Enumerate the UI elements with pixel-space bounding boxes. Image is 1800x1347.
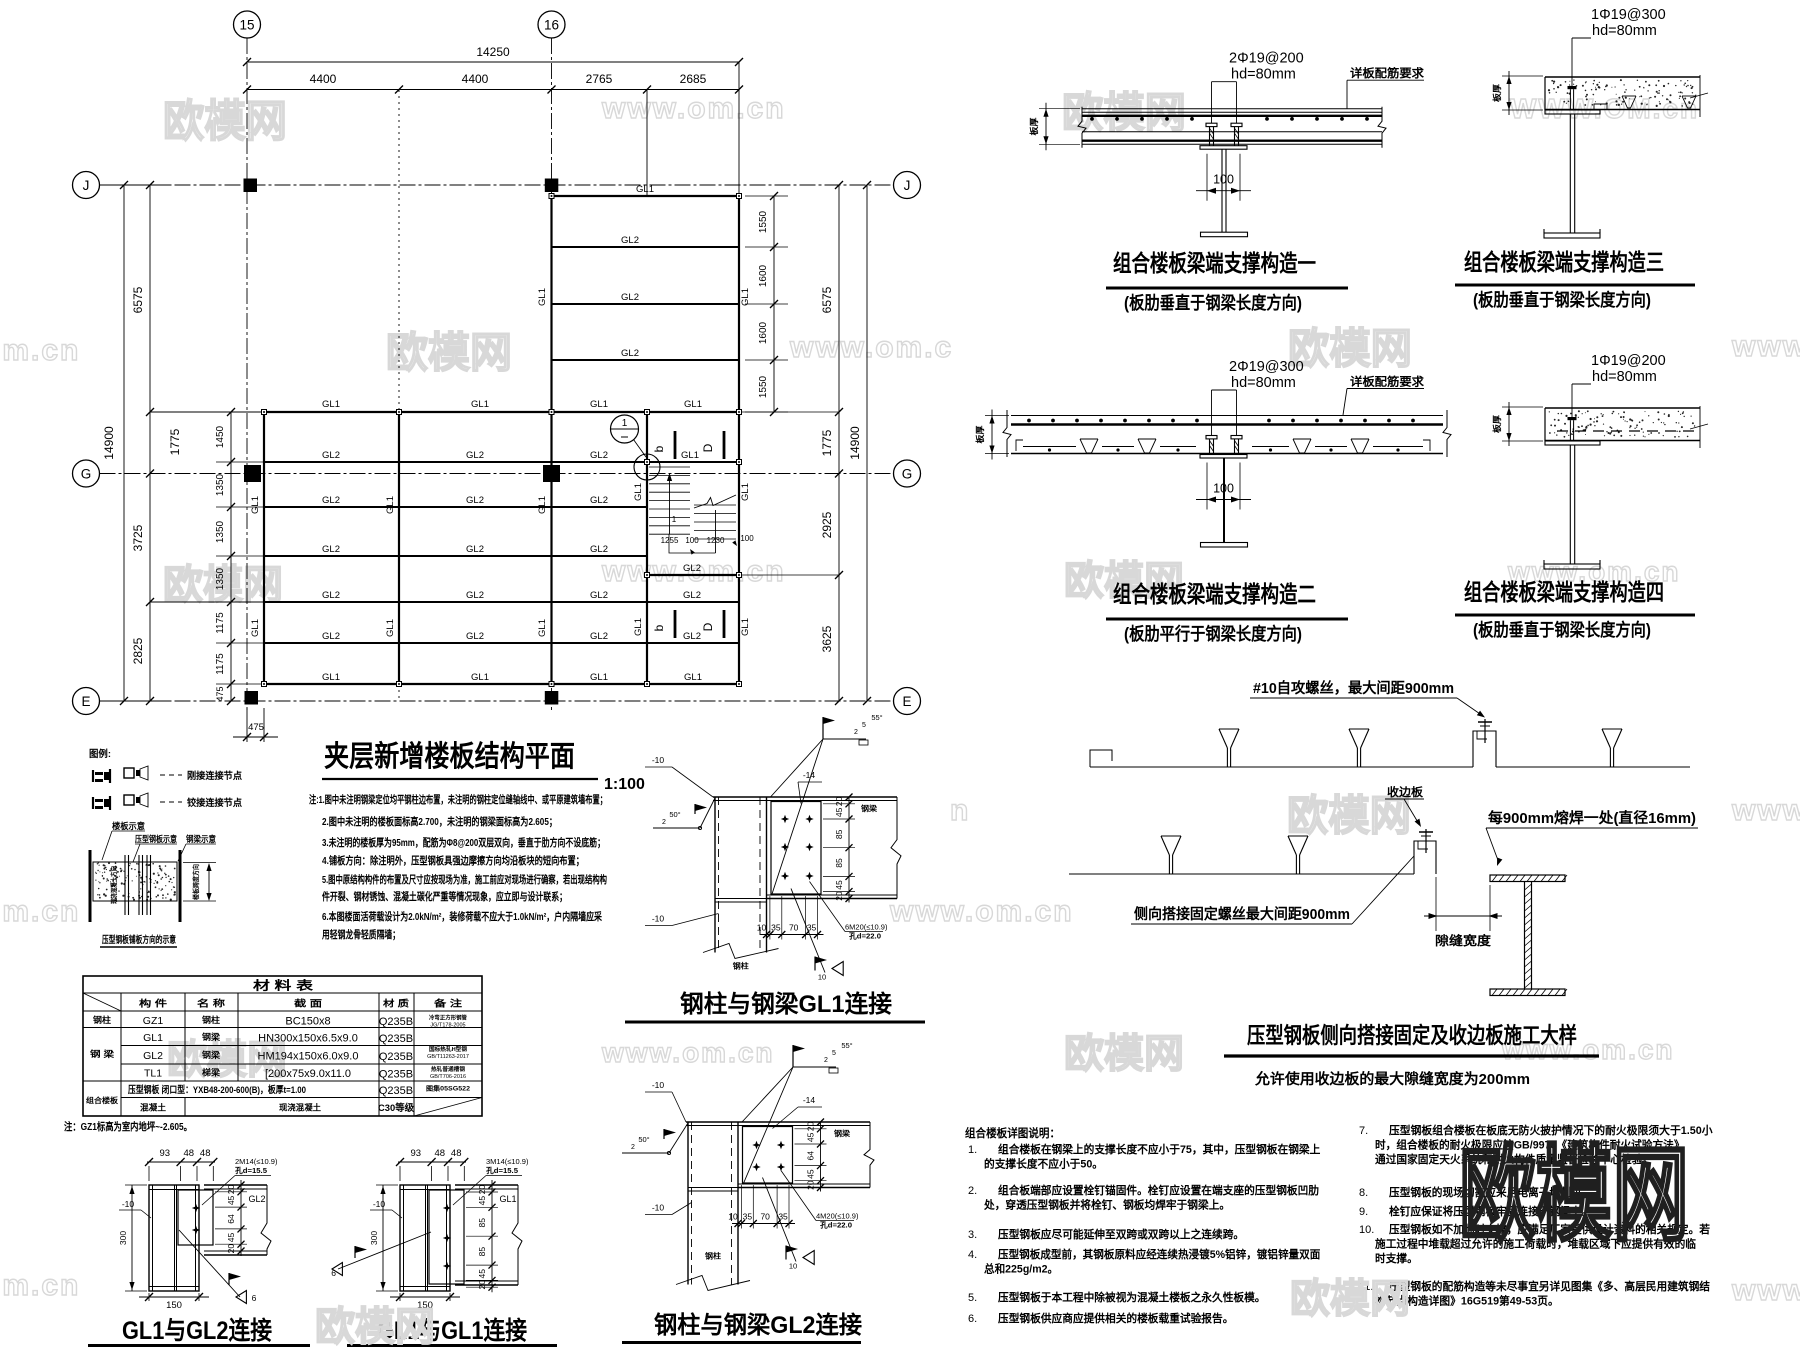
svg-text:GL2: GL2 — [590, 590, 608, 601]
svg-text:备 注: 备 注 — [433, 998, 462, 1009]
svg-text:详板配筋要求: 详板配筋要求 — [1350, 66, 1425, 80]
svg-text:300: 300 — [369, 1231, 379, 1245]
weld note 50deg (left) — [653, 798, 715, 830]
floor plan: grid line G (horizontal) — [73, 460, 921, 487]
svg-text:板厚: 板厚 — [975, 425, 985, 444]
svg-text:om.cn: om.cn — [0, 1269, 80, 1302]
svg-text:-10: -10 — [652, 914, 665, 924]
connected beam flanges — [455, 1185, 518, 1285]
svg-text:(板肋垂直于钢梁长度方向): (板肋垂直于钢梁长度方向) — [1473, 290, 1651, 310]
svg-text:475: 475 — [248, 722, 264, 733]
svg-text:150: 150 — [166, 1300, 182, 1311]
svg-text:(板肋平行于钢梁长度方向): (板肋平行于钢梁长度方向) — [1124, 624, 1302, 644]
plate label -14 — [798, 770, 822, 804]
svg-text:www.: www. — [1731, 330, 1800, 363]
column GZ1 at 16/G — [543, 465, 560, 482]
svg-text:钢柱: 钢柱 — [202, 1015, 221, 1025]
svg-text:注:1.图中未注明钢梁定位均平钢柱边布置，未注明的钢柱定位缝: 注:1.图中未注明钢梁定位均平钢柱边布置，未注明的钢柱定位缝轴线中、或平原建筑墙… — [309, 793, 607, 806]
svg-text:G: G — [81, 467, 92, 482]
svg-text:3725: 3725 — [131, 524, 145, 551]
weld flag callout (top) — [742, 1041, 853, 1185]
svg-text:WWW.OM.cn: WWW.OM.cn — [1510, 93, 1699, 124]
svg-text:处，穿透压型钢板并将栓钉、钢板均焊牢于钢梁上。: 处，穿透压型钢板并将栓钉、钢板均焊牢于钢梁上。 — [983, 1198, 1230, 1212]
svg-text:GL1: GL1 — [250, 496, 261, 514]
svg-text:组合楼板梁端支撑构造一: 组合楼板梁端支撑构造一 — [1113, 250, 1316, 276]
svg-text:[200x75x9.0x11.0: [200x75x9.0x11.0 — [265, 1068, 351, 1080]
svg-text:详板配筋要求: 详板配筋要求 — [1350, 375, 1425, 389]
svg-text:20: 20 — [806, 1121, 816, 1131]
svg-text:4M20(≤10.9): 4M20(≤10.9) — [816, 1212, 859, 1221]
svg-text:钢梁示意: 钢梁示意 — [186, 834, 216, 844]
slab thickness dimension 板厚 — [1492, 402, 1543, 446]
weld flag callout (bottom) — [791, 889, 843, 982]
detail title 钢柱与钢梁GL2连接 — [622, 1311, 862, 1343]
svg-text:TL1: TL1 — [144, 1068, 162, 1080]
deck figure: right beam — [179, 850, 182, 922]
svg-text:om.cn: om.cn — [0, 334, 80, 367]
edge trim label 收边板 — [1385, 785, 1424, 827]
svg-text:20: 20 — [226, 1244, 236, 1254]
rebar dots — [1090, 117, 1369, 121]
svg-text:梯梁: 梯梁 — [202, 1068, 221, 1078]
deck sheet profile (lower) with edge trim channel — [1069, 836, 1436, 874]
connection plate — [771, 802, 821, 895]
rebar dots — [1027, 419, 1415, 423]
beam bottom flange — [767, 895, 898, 899]
beam depth dimension 300 — [118, 1185, 147, 1291]
svg-text:10.: 10. — [1359, 1224, 1374, 1236]
svg-text:1550: 1550 — [758, 375, 769, 398]
svg-text:45: 45 — [806, 1169, 816, 1179]
stair landing outline — [669, 534, 716, 553]
vertical beam GL1 x=739 — [738, 412, 740, 684]
beam top flange plate — [686, 1122, 870, 1126]
svg-text:100: 100 — [740, 534, 754, 543]
svg-text:www.om.cn: www.om.cn — [601, 92, 786, 125]
svg-text:GL1: GL1 — [681, 450, 699, 461]
svg-text:1350: 1350 — [215, 473, 226, 496]
svg-text:-14: -14 — [803, 1095, 816, 1105]
svg-text:85: 85 — [477, 1218, 487, 1228]
stair break line — [694, 495, 736, 508]
dimension column 6575/1775/3725/2825 (left) — [131, 181, 264, 705]
stud callout — [1572, 7, 1666, 86]
svg-text:GL1: GL1 — [740, 288, 751, 306]
svg-text:48: 48 — [200, 1148, 211, 1159]
stud leader lines from callout — [1212, 82, 1237, 124]
svg-text:国标热轧H型钢: 国标热轧H型钢 — [429, 1045, 468, 1053]
svg-text:n: n — [950, 794, 970, 827]
svg-text:4.: 4. — [968, 1249, 977, 1261]
svg-text:侧向搭接固定螺丝最大间距900mm: 侧向搭接固定螺丝最大间距900mm — [1134, 905, 1350, 923]
svg-text:6: 6 — [252, 1293, 257, 1303]
svg-text:组合楼板梁端支撑构造二: 组合楼板梁端支撑构造二 — [1113, 581, 1316, 607]
svg-text:欧模网: 欧模网 — [386, 329, 512, 376]
svg-text:www.om.cn: www.om.cn — [889, 895, 1074, 928]
note item 5. — [968, 1290, 1266, 1304]
svg-text:孔d=15.5: 孔d=15.5 — [486, 1165, 518, 1175]
svg-text:1600: 1600 — [758, 264, 769, 287]
deck figure: left beam — [89, 850, 92, 922]
svg-text:压型钢板铺板方向的示意: 压型钢板铺板方向的示意 — [102, 934, 176, 946]
stair up arrow — [667, 473, 677, 534]
svg-text:70: 70 — [789, 923, 799, 933]
svg-text:9.: 9. — [1359, 1206, 1368, 1218]
slab thickness dimension 板厚 — [1492, 71, 1543, 115]
svg-text:20: 20 — [477, 1280, 487, 1290]
svg-text:压型钢板示意: 压型钢板示意 — [135, 834, 177, 844]
column intermediate stiffener lines — [715, 899, 767, 903]
stud callout — [1572, 353, 1666, 417]
note item 2. — [968, 1183, 1319, 1212]
note item 10. — [1359, 1222, 1710, 1265]
shear studs on beam — [1206, 123, 1242, 146]
material table frame — [83, 976, 482, 1116]
svg-text:2: 2 — [854, 729, 858, 736]
svg-text:J: J — [904, 178, 911, 193]
svg-text:45: 45 — [477, 1269, 487, 1279]
svg-text:15: 15 — [239, 18, 254, 33]
slab thickness dimension — [975, 410, 1009, 460]
svg-text:45: 45 — [226, 1233, 236, 1243]
svg-text:图例:: 图例: — [89, 748, 111, 760]
bottom dimension 10/35/70/35 — [728, 1185, 795, 1229]
beam break mark (right) — [891, 797, 901, 899]
slab right break — [1690, 75, 1708, 117]
svg-text:-10: -10 — [122, 1199, 135, 1209]
svg-text:BC150x8: BC150x8 — [285, 1016, 330, 1028]
svg-text:GL1: GL1 — [684, 399, 702, 410]
plate label -10 (top left) — [645, 755, 713, 797]
svg-text:hd=80mm: hd=80mm — [1592, 369, 1657, 385]
svg-text:1175: 1175 — [215, 653, 226, 675]
deck profile bottom with ribs — [1011, 439, 1443, 454]
detail title 组合楼板梁端支撑构造二 — [1106, 581, 1348, 644]
material table headers — [139, 998, 462, 1009]
material table row deck sheet — [86, 1084, 470, 1106]
svg-text:5: 5 — [832, 1050, 836, 1057]
svg-text:D: D — [701, 443, 715, 452]
svg-text:GL1: GL1 — [499, 1194, 516, 1204]
svg-text:1350: 1350 — [215, 520, 226, 543]
svg-text:收边板: 收边板 — [1387, 785, 1424, 799]
section mark b (lower) — [652, 610, 675, 638]
svg-text:GL2: GL2 — [683, 590, 701, 601]
svg-text:3M14(≤10.9): 3M14(≤10.9) — [486, 1157, 529, 1166]
deck figure: span direction dimension — [183, 863, 216, 902]
svg-text:GL1: GL1 — [590, 399, 608, 410]
slab thickness dimension — [1029, 103, 1080, 151]
svg-text:2.图中未注明的楼板面标高2.700，未注明的钢梁面标高为2: 2.图中未注明的楼板面标高2.700，未注明的钢梁面标高为2.605； — [322, 815, 557, 828]
beam break mark (right) — [864, 1122, 874, 1188]
material table row GL1 — [90, 1032, 469, 1060]
svg-text:用轻钢龙骨轻质隔墙；: 用轻钢龙骨轻质隔墙； — [321, 928, 400, 941]
note item 11. — [1359, 1279, 1710, 1308]
bolt callout 4M20/6M20 — [781, 1171, 859, 1230]
svg-text:GL2: GL2 — [590, 495, 608, 506]
stair dimension texts 1255/100/1230/100 — [661, 534, 755, 555]
floor plan: grid line 16 (vertical) — [538, 11, 565, 712]
svg-text:GL1: GL1 — [537, 496, 548, 514]
side-lap screw spacing note 侧向搭接固定螺丝最大间距900mm — [1131, 856, 1414, 924]
svg-text:GL2: GL2 — [322, 590, 340, 601]
svg-text:Q235B: Q235B — [379, 1069, 413, 1081]
svg-text:GL1: GL1 — [250, 619, 261, 637]
svg-text:4400: 4400 — [462, 72, 489, 86]
slab top band lines — [1011, 416, 1443, 425]
beam GL2 row y=643 — [264, 642, 739, 644]
svg-text:Q235B: Q235B — [379, 1085, 413, 1097]
svg-text:1175: 1175 — [215, 612, 226, 634]
svg-text:6: 6 — [331, 1268, 336, 1278]
svg-text:刚接连接节点: 刚接连接节点 — [187, 770, 242, 782]
slab top band lines — [1082, 109, 1382, 116]
svg-text:7.: 7. — [1359, 1125, 1368, 1137]
svg-text:48: 48 — [435, 1148, 446, 1159]
svg-text:10: 10 — [757, 923, 767, 933]
stair flight (up) treads — [649, 467, 690, 534]
svg-text:om.cn: om.cn — [0, 895, 80, 928]
svg-text:10: 10 — [789, 1262, 797, 1271]
svg-text:钢柱与钢梁GL1连接: 钢柱与钢梁GL1连接 — [680, 990, 892, 1018]
svg-text:100: 100 — [1213, 482, 1234, 496]
svg-text:GL2: GL2 — [322, 544, 340, 555]
svg-text:1350: 1350 — [215, 567, 226, 590]
plate thickness label -10 — [370, 1199, 402, 1218]
svg-text:100: 100 — [1213, 173, 1234, 187]
svg-text:HN300x150x6.5x9.0: HN300x150x6.5x9.0 — [258, 1033, 358, 1045]
beam end node markers — [262, 194, 742, 687]
svg-text:钢梁: 钢梁 — [202, 1050, 221, 1060]
svg-text:14900: 14900 — [848, 426, 862, 460]
floor plan: grid line J (horizontal) — [73, 172, 921, 199]
svg-text:20: 20 — [226, 1184, 236, 1194]
deck sheet profile (upper) — [1090, 729, 1690, 767]
detail title GL1与GL2连接 — [88, 1317, 310, 1346]
svg-text:J: J — [83, 178, 90, 193]
beam GL2 landing beam y=575 (stair bay) — [647, 574, 739, 576]
svg-text:2: 2 — [631, 1144, 635, 1151]
svg-text:70: 70 — [760, 1212, 770, 1222]
svg-text:现浇混凝土方向: 现浇混凝土方向 — [109, 866, 118, 904]
svg-text:1775: 1775 — [820, 429, 834, 456]
svg-text:GL1: GL1 — [740, 618, 751, 636]
slab bottom band lines — [1082, 132, 1382, 145]
bolts M20 — [781, 815, 814, 880]
svg-text:GL1: GL1 — [740, 483, 751, 501]
weld flag callout (top) — [771, 713, 883, 896]
svg-text:GL1: GL1 — [471, 399, 489, 410]
svg-text:铰接连接节点: 铰接连接节点 — [187, 797, 242, 809]
plate label -14 — [773, 1095, 823, 1129]
svg-text:楼板跨度方向: 楼板跨度方向 — [191, 864, 200, 900]
weld note 50deg (left) — [622, 1123, 688, 1155]
svg-text:14900: 14900 — [102, 426, 116, 460]
svg-text:压型钢板成型前，其钢板原料应经连续热浸镀5%铝锌，镀铝锌量双: 压型钢板成型前，其钢板原料应经连续热浸镀5%铝锌，镀铝锌量双面 — [998, 1247, 1320, 1261]
svg-text:6M20(≤10.9): 6M20(≤10.9) — [845, 923, 888, 932]
beam GL1 bottom row of main block y=684 — [264, 683, 739, 685]
svg-text:www.: www. — [1731, 1274, 1800, 1307]
svg-text:50°: 50° — [638, 1135, 649, 1144]
svg-text:欧模网: 欧模网 — [1288, 325, 1412, 372]
svg-text:1Φ19@300: 1Φ19@300 — [1591, 7, 1666, 23]
svg-text:45: 45 — [834, 807, 844, 817]
dimension 100 between studs — [1196, 463, 1251, 510]
svg-text:45: 45 — [806, 1132, 816, 1142]
weld callout with flag — [179, 1230, 257, 1304]
floor plan: grid line 15 (vertical) — [234, 11, 261, 712]
flange width dimension 150 — [390, 1293, 460, 1311]
svg-text:2: 2 — [662, 819, 666, 826]
svg-text:2Φ19@200: 2Φ19@200 — [1229, 51, 1304, 67]
svg-text:欧模网: 欧模网 — [163, 97, 287, 146]
steel column (dashed web lines) — [703, 797, 779, 971]
svg-text:55°: 55° — [841, 1041, 852, 1050]
svg-text:www.om.c: www.om.c — [789, 331, 953, 364]
svg-text:GL1: GL1 — [537, 288, 548, 306]
svg-text:1.: 1. — [968, 1144, 977, 1156]
section mark D (upper) — [701, 431, 724, 459]
svg-text:GL1: GL1 — [385, 619, 396, 637]
beam GL1 (right edge of upper block) — [738, 196, 740, 412]
svg-text:1775: 1775 — [168, 428, 182, 455]
dimension column 6575/1775/2925/3625 (right) — [739, 181, 843, 705]
svg-text:8.: 8. — [1359, 1187, 1368, 1199]
svg-text:GL1: GL1 — [636, 184, 654, 195]
svg-text:时支撑。: 时支撑。 — [1375, 1251, 1418, 1265]
svg-text:64: 64 — [226, 1214, 236, 1224]
top dimension 93/48/48 — [145, 1148, 217, 1181]
slab reinforcement note — [1343, 375, 1425, 416]
plate label -10 (bottom left) — [645, 914, 719, 926]
svg-text:D: D — [701, 622, 715, 631]
svg-text:48: 48 — [184, 1148, 195, 1159]
svg-text:欧模网: 欧模网 — [315, 1305, 435, 1347]
column GZ1 at 16/E — [545, 691, 559, 705]
svg-text:楼板示意: 楼板示意 — [112, 821, 145, 831]
note item 4. — [968, 1247, 1320, 1276]
svg-text:板厚: 板厚 — [1492, 414, 1502, 433]
deck side-lap channel (upper) — [1473, 731, 1496, 767]
svg-text:名 称: 名 称 — [197, 998, 225, 1009]
legend label rigid connection — [160, 770, 242, 782]
svg-text:2765: 2765 — [586, 72, 613, 86]
column GZ1 at 16/J — [545, 179, 559, 193]
weld note 每900mm熔焊一处 — [1486, 809, 1698, 866]
svg-text:钢柱: 钢柱 — [705, 1251, 722, 1261]
svg-text:HM194x150x6.0x9.0: HM194x150x6.0x9.0 — [258, 1051, 359, 1063]
svg-text:GL2: GL2 — [466, 495, 484, 506]
dimension 14900 (overall left) — [100, 181, 171, 705]
shear studs on beam — [1206, 436, 1242, 455]
svg-text:#10自攻螺丝，最大间距900mm: #10自攻螺丝，最大间距900mm — [1253, 679, 1454, 697]
svg-text:组合楼板详图说明：: 组合楼板详图说明： — [965, 1126, 1060, 1140]
svg-text:GL2: GL2 — [683, 631, 701, 642]
svg-text:45: 45 — [477, 1196, 487, 1206]
material table row GZ1 — [93, 1014, 467, 1029]
svg-text:组合板端部应设置栓钉锚固件。栓钉应设置在端支座的压型钢板凹肋: 组合板端部应设置栓钉锚固件。栓钉应设置在端支座的压型钢板凹肋 — [998, 1183, 1319, 1197]
svg-text:1550: 1550 — [758, 210, 769, 233]
beam depth dimension 300 — [369, 1185, 398, 1291]
deck figure caption 压型钢板铺板方向的示意 — [100, 934, 177, 947]
legend symbol pinned connection — [93, 793, 148, 810]
svg-text:每900mm熔焊一处(直径16mm): 每900mm熔焊一处(直径16mm) — [1488, 809, 1696, 827]
dimension 14900 (overall right) — [848, 181, 871, 705]
connected beam break mark — [261, 1185, 271, 1255]
svg-text:Q235B: Q235B — [379, 1051, 413, 1063]
slab break marks — [1003, 410, 1011, 457]
svg-text:GL2: GL2 — [322, 495, 340, 506]
svg-text:截 面: 截 面 — [294, 998, 322, 1009]
svg-text:材 质: 材 质 — [382, 998, 409, 1009]
svg-text:GL1: GL1 — [633, 483, 644, 501]
column GZ1 at 15/E — [245, 691, 259, 705]
svg-text:构 件: 构 件 — [139, 998, 167, 1009]
svg-text:材 料 表: 材 料 表 — [252, 978, 315, 993]
note item 9. — [1359, 1204, 1592, 1218]
svg-text:GL2: GL2 — [466, 590, 484, 601]
svg-text:压型钢板侧向搭接固定及收边板施工大样: 压型钢板侧向搭接固定及收边板施工大样 — [1247, 1023, 1577, 1048]
svg-text:3.: 3. — [968, 1229, 977, 1241]
svg-text:钢 梁: 钢 梁 — [90, 1049, 115, 1059]
svg-text:20: 20 — [806, 1180, 816, 1190]
beam top flange plate — [713, 797, 897, 801]
svg-text:2685: 2685 — [680, 72, 707, 86]
plate label -10 (bottom left) — [645, 1203, 692, 1215]
section mark D (lower) — [701, 610, 724, 638]
svg-text:GL2: GL2 — [248, 1194, 265, 1204]
deck figure: slab with concrete hatch — [93, 862, 177, 901]
steel column (dashed web lines) — [676, 1122, 750, 1291]
vertical beam GL1 x=399 — [398, 412, 400, 684]
svg-text:6575: 6575 — [820, 286, 834, 313]
svg-text:3.未注明的楼板厚为95mm，配筋为Φ8@200双层双向，垂: 3.未注明的楼板厚为95mm，配筋为Φ8@200双层双向，垂直于肋方向不设底筋； — [322, 836, 605, 849]
supporting beam GL1 (vertical section) — [400, 1185, 450, 1291]
svg-text:93: 93 — [411, 1148, 422, 1159]
svg-text:35: 35 — [743, 1212, 753, 1222]
plate label -10 (top left) — [645, 1080, 686, 1122]
svg-text:2925: 2925 — [820, 511, 834, 538]
svg-text:欧模网: 欧模网 — [1064, 1032, 1184, 1076]
I-beam supporting deck (lower) — [1490, 875, 1567, 996]
stud leader lines from callout — [1212, 390, 1237, 436]
beam GL2 row y=507 — [264, 506, 647, 508]
beam GL2 row y=602 — [264, 601, 739, 603]
svg-text:Q235B: Q235B — [379, 1033, 413, 1045]
svg-text:64: 64 — [806, 1151, 816, 1161]
slab reinforcement note — [1347, 66, 1425, 109]
shear stud — [1568, 417, 1577, 440]
svg-text:10: 10 — [728, 1212, 738, 1222]
svg-text:图集05SG522: 图集05SG522 — [426, 1084, 470, 1093]
svg-text:1: 1 — [622, 418, 628, 429]
svg-text:475: 475 — [215, 686, 225, 701]
svg-text:20: 20 — [834, 796, 844, 806]
rebar & stud callout text — [1229, 51, 1304, 83]
svg-text:20: 20 — [834, 891, 844, 901]
self-tapping screw on edge trim — [1425, 829, 1427, 853]
svg-text:钢梁: 钢梁 — [834, 1128, 851, 1138]
svg-text:件开裂、钢材锈蚀、混凝土碳化严重等情况现象，应立即与设计联系: 件开裂、钢材锈蚀、混凝土碳化严重等情况现象，应立即与设计联系； — [322, 890, 567, 903]
svg-text:GL2: GL2 — [621, 235, 639, 246]
svg-text:GZ1: GZ1 — [143, 1015, 164, 1027]
svg-text:压型钢板 闭口型：YXB48-200-600(B)，板厚t: 压型钢板 闭口型：YXB48-200-600(B)，板厚t=1.00 — [128, 1084, 306, 1096]
detail title 组合楼板梁端支撑构造四 — [1455, 579, 1695, 640]
beam GL2 rows in upper block — [552, 246, 740, 248]
plate thickness label -10 — [119, 1199, 151, 1218]
svg-text:50°: 50° — [669, 810, 680, 819]
deck rib V marks in slab — [1594, 96, 1696, 110]
